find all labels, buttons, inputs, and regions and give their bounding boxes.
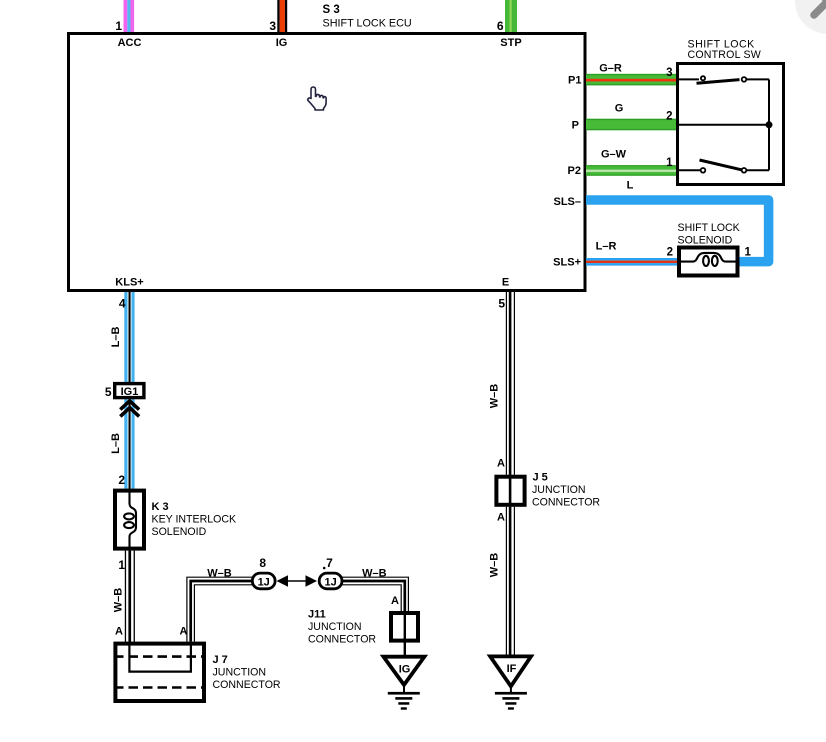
svg-text:W–B: W–B — [113, 588, 125, 613]
J7 dashed line upper — [114, 655, 206, 658]
svg-text:8: 8 — [259, 556, 266, 570]
svg-text:ACC: ACC — [118, 37, 142, 49]
svg-text:STP: STP — [500, 37, 521, 49]
wire P2 green/white (G-W) — [586, 165, 677, 176]
svg-text:JUNCTION: JUNCTION — [532, 484, 586, 496]
svg-text:KLS+: KLS+ — [115, 277, 143, 289]
wire KLS+ blue-black-blue (L-B) vertical — [124, 292, 134, 489]
switch box (shift lock control sw) — [678, 64, 784, 185]
svg-text:W–B: W–B — [489, 384, 501, 409]
solenoid coil — [679, 253, 738, 266]
svg-text:5: 5 — [105, 385, 112, 399]
ground IG triangle — [384, 657, 425, 685]
J7 junction connector box — [115, 644, 204, 701]
switch S2 row P2 — [678, 160, 770, 173]
wire P green (G) — [586, 119, 677, 130]
svg-text:4: 4 — [119, 297, 126, 311]
wire W-B K3 to J7 — [125, 551, 135, 642]
svg-text:L: L — [627, 180, 634, 192]
svg-text:G–W: G–W — [601, 149, 627, 161]
svg-text:2: 2 — [118, 473, 125, 487]
svg-text:CONNECTOR: CONNECTOR — [308, 634, 376, 646]
ground IF stem — [510, 686, 512, 692]
svg-text:W–B: W–B — [362, 568, 387, 580]
svg-text:IG1: IG1 — [121, 386, 139, 398]
svg-text:SLS+: SLS+ — [553, 257, 581, 269]
svg-text:1J: 1J — [324, 576, 336, 588]
svg-text:A: A — [497, 512, 505, 524]
svg-text:IG: IG — [276, 37, 288, 49]
arrow right — [306, 575, 318, 586]
ground IG bars — [388, 692, 420, 710]
svg-text:CONTROL SW: CONTROL SW — [688, 49, 761, 61]
svg-text:SOLENOID: SOLENOID — [678, 234, 733, 246]
svg-text:L–R: L–R — [596, 241, 617, 253]
svg-text:1: 1 — [115, 19, 122, 33]
svg-text:CONNECTOR: CONNECTOR — [532, 497, 600, 509]
svg-text:K 3: K 3 — [152, 501, 169, 513]
svg-text:2: 2 — [666, 111, 672, 123]
svg-text:1: 1 — [118, 558, 125, 572]
wire through J5 — [509, 475, 512, 507]
arrow left — [277, 575, 289, 586]
svg-text:W–B: W–B — [489, 553, 501, 578]
ground IG stem — [403, 685, 405, 692]
svg-text:6: 6 — [497, 19, 504, 33]
svg-text:2: 2 — [667, 247, 673, 259]
svg-text:P2: P2 — [568, 165, 581, 177]
svg-text:1J: 1J — [258, 576, 270, 588]
wire P row — [678, 124, 770, 126]
svg-text:1: 1 — [745, 247, 752, 259]
connector IG1 — [115, 384, 144, 398]
svg-text:SOLENOID: SOLENOID — [152, 526, 207, 538]
wire SLS+ blue/red (L-R) — [586, 258, 677, 266]
J7 inner U — [129, 642, 191, 672]
J7 dashed line lower — [114, 686, 206, 689]
svg-text:P1: P1 — [568, 75, 581, 87]
link wire — [288, 580, 306, 582]
svg-text:JUNCTION: JUNCTION — [213, 667, 267, 679]
svg-text:IF: IF — [507, 663, 517, 675]
svg-text:SHIFT LOCK: SHIFT LOCK — [678, 222, 740, 234]
J11 junction connector box — [391, 613, 418, 641]
wire sw right vertical — [768, 79, 770, 170]
svg-text:KEY INTERLOCK: KEY INTERLOCK — [152, 514, 237, 526]
J5 junction connector box — [496, 477, 524, 505]
svg-text:3: 3 — [666, 67, 672, 79]
connector chevrons — [120, 401, 139, 417]
svg-text:JUNCTION: JUNCTION — [308, 621, 362, 633]
svg-text:S 3: S 3 — [323, 4, 340, 16]
svg-text:IG: IG — [399, 664, 411, 676]
wire W-B J5 to IF ground — [506, 507, 515, 657]
svg-text:7: 7 — [326, 556, 333, 570]
K3 coil — [124, 489, 136, 551]
close button — [795, 0, 826, 34]
svg-text:J11: J11 — [308, 609, 326, 621]
svg-text:CONNECTOR: CONNECTOR — [213, 679, 281, 691]
junction connector 1J (7) — [319, 573, 342, 589]
wire STP green (G) top pin 6 — [505, 0, 517, 33]
svg-text:SHIFT LOCK ECU: SHIFT LOCK ECU — [323, 18, 412, 30]
svg-text:G: G — [615, 103, 624, 115]
svg-text:L–B: L–B — [110, 433, 122, 454]
wire P1 green/red (G-R) — [586, 74, 677, 85]
svg-text:SLS–: SLS– — [553, 196, 581, 208]
solenoid box — [679, 248, 738, 276]
svg-text:J 7: J 7 — [213, 654, 228, 666]
svg-text:P: P — [572, 120, 579, 132]
svg-text:A: A — [497, 458, 505, 470]
wire ACC pink-blue-pink (P-L) top pin 1 — [124, 0, 135, 33]
leader dot — [323, 567, 326, 570]
svg-text:W–B: W–B — [207, 568, 232, 580]
wire through J11 — [404, 611, 406, 657]
wire W-B E to J5 — [506, 292, 515, 475]
svg-text:1: 1 — [666, 157, 673, 169]
svg-text:A: A — [391, 595, 399, 607]
switch S1 row P1 — [678, 76, 770, 83]
wire W-B J7 to junction 1J(8) — [187, 577, 252, 641]
wire W-B 1J(7) to J11 — [342, 577, 408, 611]
K3 key interlock solenoid box — [115, 491, 144, 549]
wire L blue thick (SLS- to solenoid pin1) — [586, 200, 769, 262]
wire IG black-red-black (B-R) top pin 3 — [277, 0, 287, 33]
svg-text:E: E — [502, 277, 509, 289]
svg-text:3: 3 — [269, 19, 276, 33]
svg-text:J 5: J 5 — [533, 472, 548, 484]
ECU box S3 — [69, 34, 586, 291]
svg-text:5: 5 — [498, 297, 505, 311]
svg-text:A: A — [115, 626, 123, 638]
ground IF triangle — [490, 656, 531, 686]
junction connector 1J (8) — [252, 573, 275, 589]
junction dot — [766, 121, 773, 128]
cursor hand icon — [308, 87, 326, 110]
svg-text:G–R: G–R — [599, 63, 622, 75]
ground IF bars — [495, 692, 527, 710]
svg-text:L–B: L–B — [110, 327, 122, 348]
